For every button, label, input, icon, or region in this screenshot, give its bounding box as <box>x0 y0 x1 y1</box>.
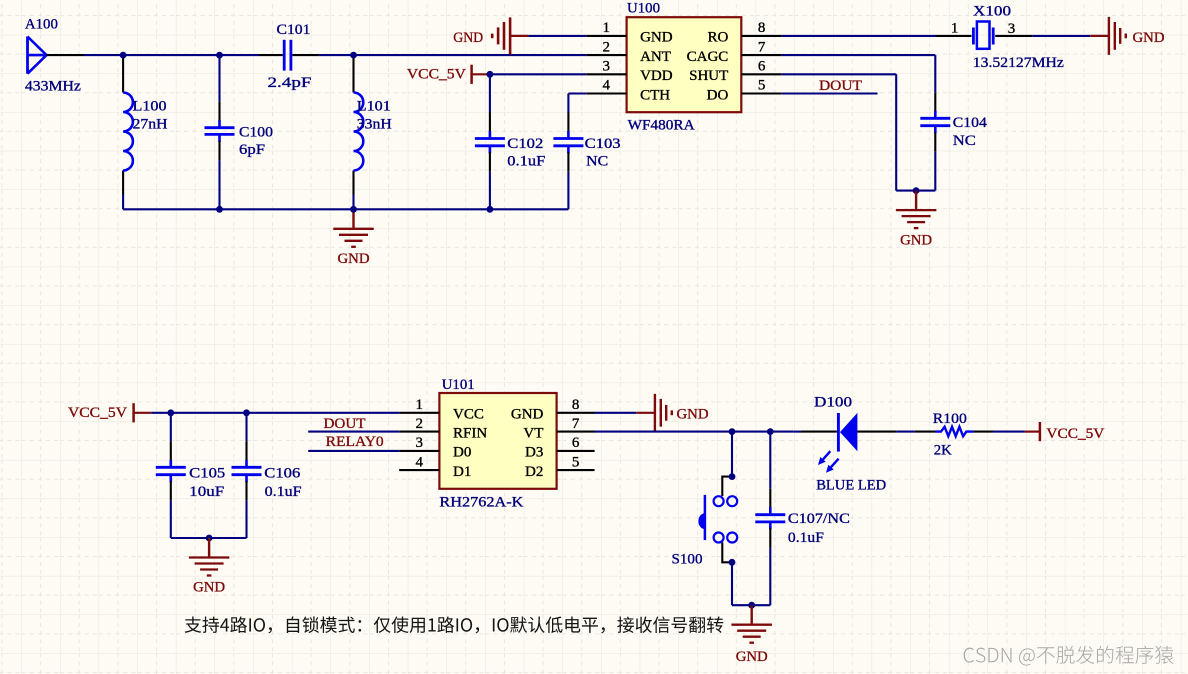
svg-text:U100: U100 <box>627 0 660 16</box>
svg-text:GND: GND <box>900 233 932 249</box>
svg-text:0.1uF: 0.1uF <box>507 153 545 169</box>
svg-text:5: 5 <box>758 78 766 94</box>
svg-text:3: 3 <box>603 59 611 75</box>
svg-text:C103: C103 <box>585 136 621 152</box>
svg-text:VCC_5V: VCC_5V <box>1046 426 1104 442</box>
svg-text:13.52127MHz: 13.52127MHz <box>973 55 1064 71</box>
svg-text:ANT: ANT <box>640 49 671 65</box>
svg-text:RH2762A-K: RH2762A-K <box>439 494 523 510</box>
svg-text:C107/NC: C107/NC <box>788 511 850 527</box>
svg-text:2K: 2K <box>934 443 952 459</box>
svg-text:2: 2 <box>416 416 424 432</box>
svg-text:1: 1 <box>416 397 424 413</box>
svg-text:RO: RO <box>707 30 728 46</box>
svg-text:GND: GND <box>193 579 225 595</box>
svg-text:GND: GND <box>1133 30 1165 46</box>
svg-text:DO: DO <box>707 87 729 103</box>
svg-text:6pF: 6pF <box>239 142 265 158</box>
svg-text:VCC_5V: VCC_5V <box>407 67 466 83</box>
svg-text:33nH: 33nH <box>357 117 392 133</box>
svg-text:R100: R100 <box>933 411 967 427</box>
svg-text:2.4pF: 2.4pF <box>268 75 312 91</box>
svg-text:6: 6 <box>572 435 580 451</box>
svg-text:D100: D100 <box>814 395 852 411</box>
svg-text:3: 3 <box>1008 21 1016 37</box>
svg-text:3: 3 <box>416 435 424 451</box>
svg-text:0.1uF: 0.1uF <box>265 484 302 500</box>
svg-text:27nH: 27nH <box>133 117 168 133</box>
svg-text:RELAY0: RELAY0 <box>326 434 384 450</box>
svg-text:8: 8 <box>758 20 766 36</box>
svg-text:RFIN: RFIN <box>453 425 487 441</box>
svg-text:VCC: VCC <box>453 407 484 423</box>
svg-text:C104: C104 <box>953 115 988 131</box>
svg-text:0.1uF: 0.1uF <box>788 530 824 546</box>
svg-text:433MHz: 433MHz <box>25 79 81 95</box>
svg-text:C106: C106 <box>264 465 301 481</box>
svg-text:VT: VT <box>523 425 543 441</box>
svg-text:5: 5 <box>572 454 580 470</box>
svg-text:L101: L101 <box>357 98 391 114</box>
svg-text:GND: GND <box>338 251 370 267</box>
svg-text:C101: C101 <box>277 22 311 38</box>
svg-text:D1: D1 <box>453 464 471 480</box>
svg-text:1: 1 <box>951 20 959 36</box>
svg-text:CTH: CTH <box>640 87 670 103</box>
svg-text:7: 7 <box>758 39 766 55</box>
svg-text:D3: D3 <box>525 445 543 461</box>
svg-text:1: 1 <box>603 20 611 36</box>
svg-text:2: 2 <box>603 39 611 55</box>
svg-text:D0: D0 <box>453 445 471 461</box>
svg-text:U101: U101 <box>442 377 475 393</box>
svg-text:C105: C105 <box>189 465 225 481</box>
svg-text:GND: GND <box>453 30 483 46</box>
svg-text:6: 6 <box>758 59 766 75</box>
svg-text:A100: A100 <box>25 17 58 33</box>
svg-text:S100: S100 <box>672 552 703 568</box>
svg-text:VCC_5V: VCC_5V <box>68 405 127 421</box>
svg-text:GND: GND <box>677 407 709 423</box>
svg-text:7: 7 <box>572 416 580 432</box>
svg-text:GND: GND <box>736 649 768 665</box>
svg-text:D2: D2 <box>525 464 543 480</box>
svg-text:4: 4 <box>416 454 424 470</box>
svg-text:GND: GND <box>640 30 673 46</box>
svg-text:NC: NC <box>586 154 608 170</box>
svg-text:SHUT: SHUT <box>689 68 728 84</box>
svg-text:NC: NC <box>953 133 976 149</box>
svg-text:C102: C102 <box>507 136 543 152</box>
svg-text:C100: C100 <box>239 124 273 140</box>
svg-text:L100: L100 <box>133 98 167 114</box>
svg-text:10uF: 10uF <box>189 484 224 500</box>
svg-text:CAGC: CAGC <box>687 49 729 65</box>
svg-text:8: 8 <box>572 397 580 413</box>
svg-text:VDD: VDD <box>640 68 673 84</box>
svg-text:GND: GND <box>511 407 544 423</box>
svg-text:WF480RA: WF480RA <box>628 117 695 133</box>
svg-text:DOUT: DOUT <box>819 78 862 94</box>
svg-text:BLUE LED: BLUE LED <box>816 478 886 494</box>
svg-text:4: 4 <box>603 78 611 94</box>
svg-text:X100: X100 <box>973 4 1011 20</box>
svg-text:DOUT: DOUT <box>324 416 366 432</box>
